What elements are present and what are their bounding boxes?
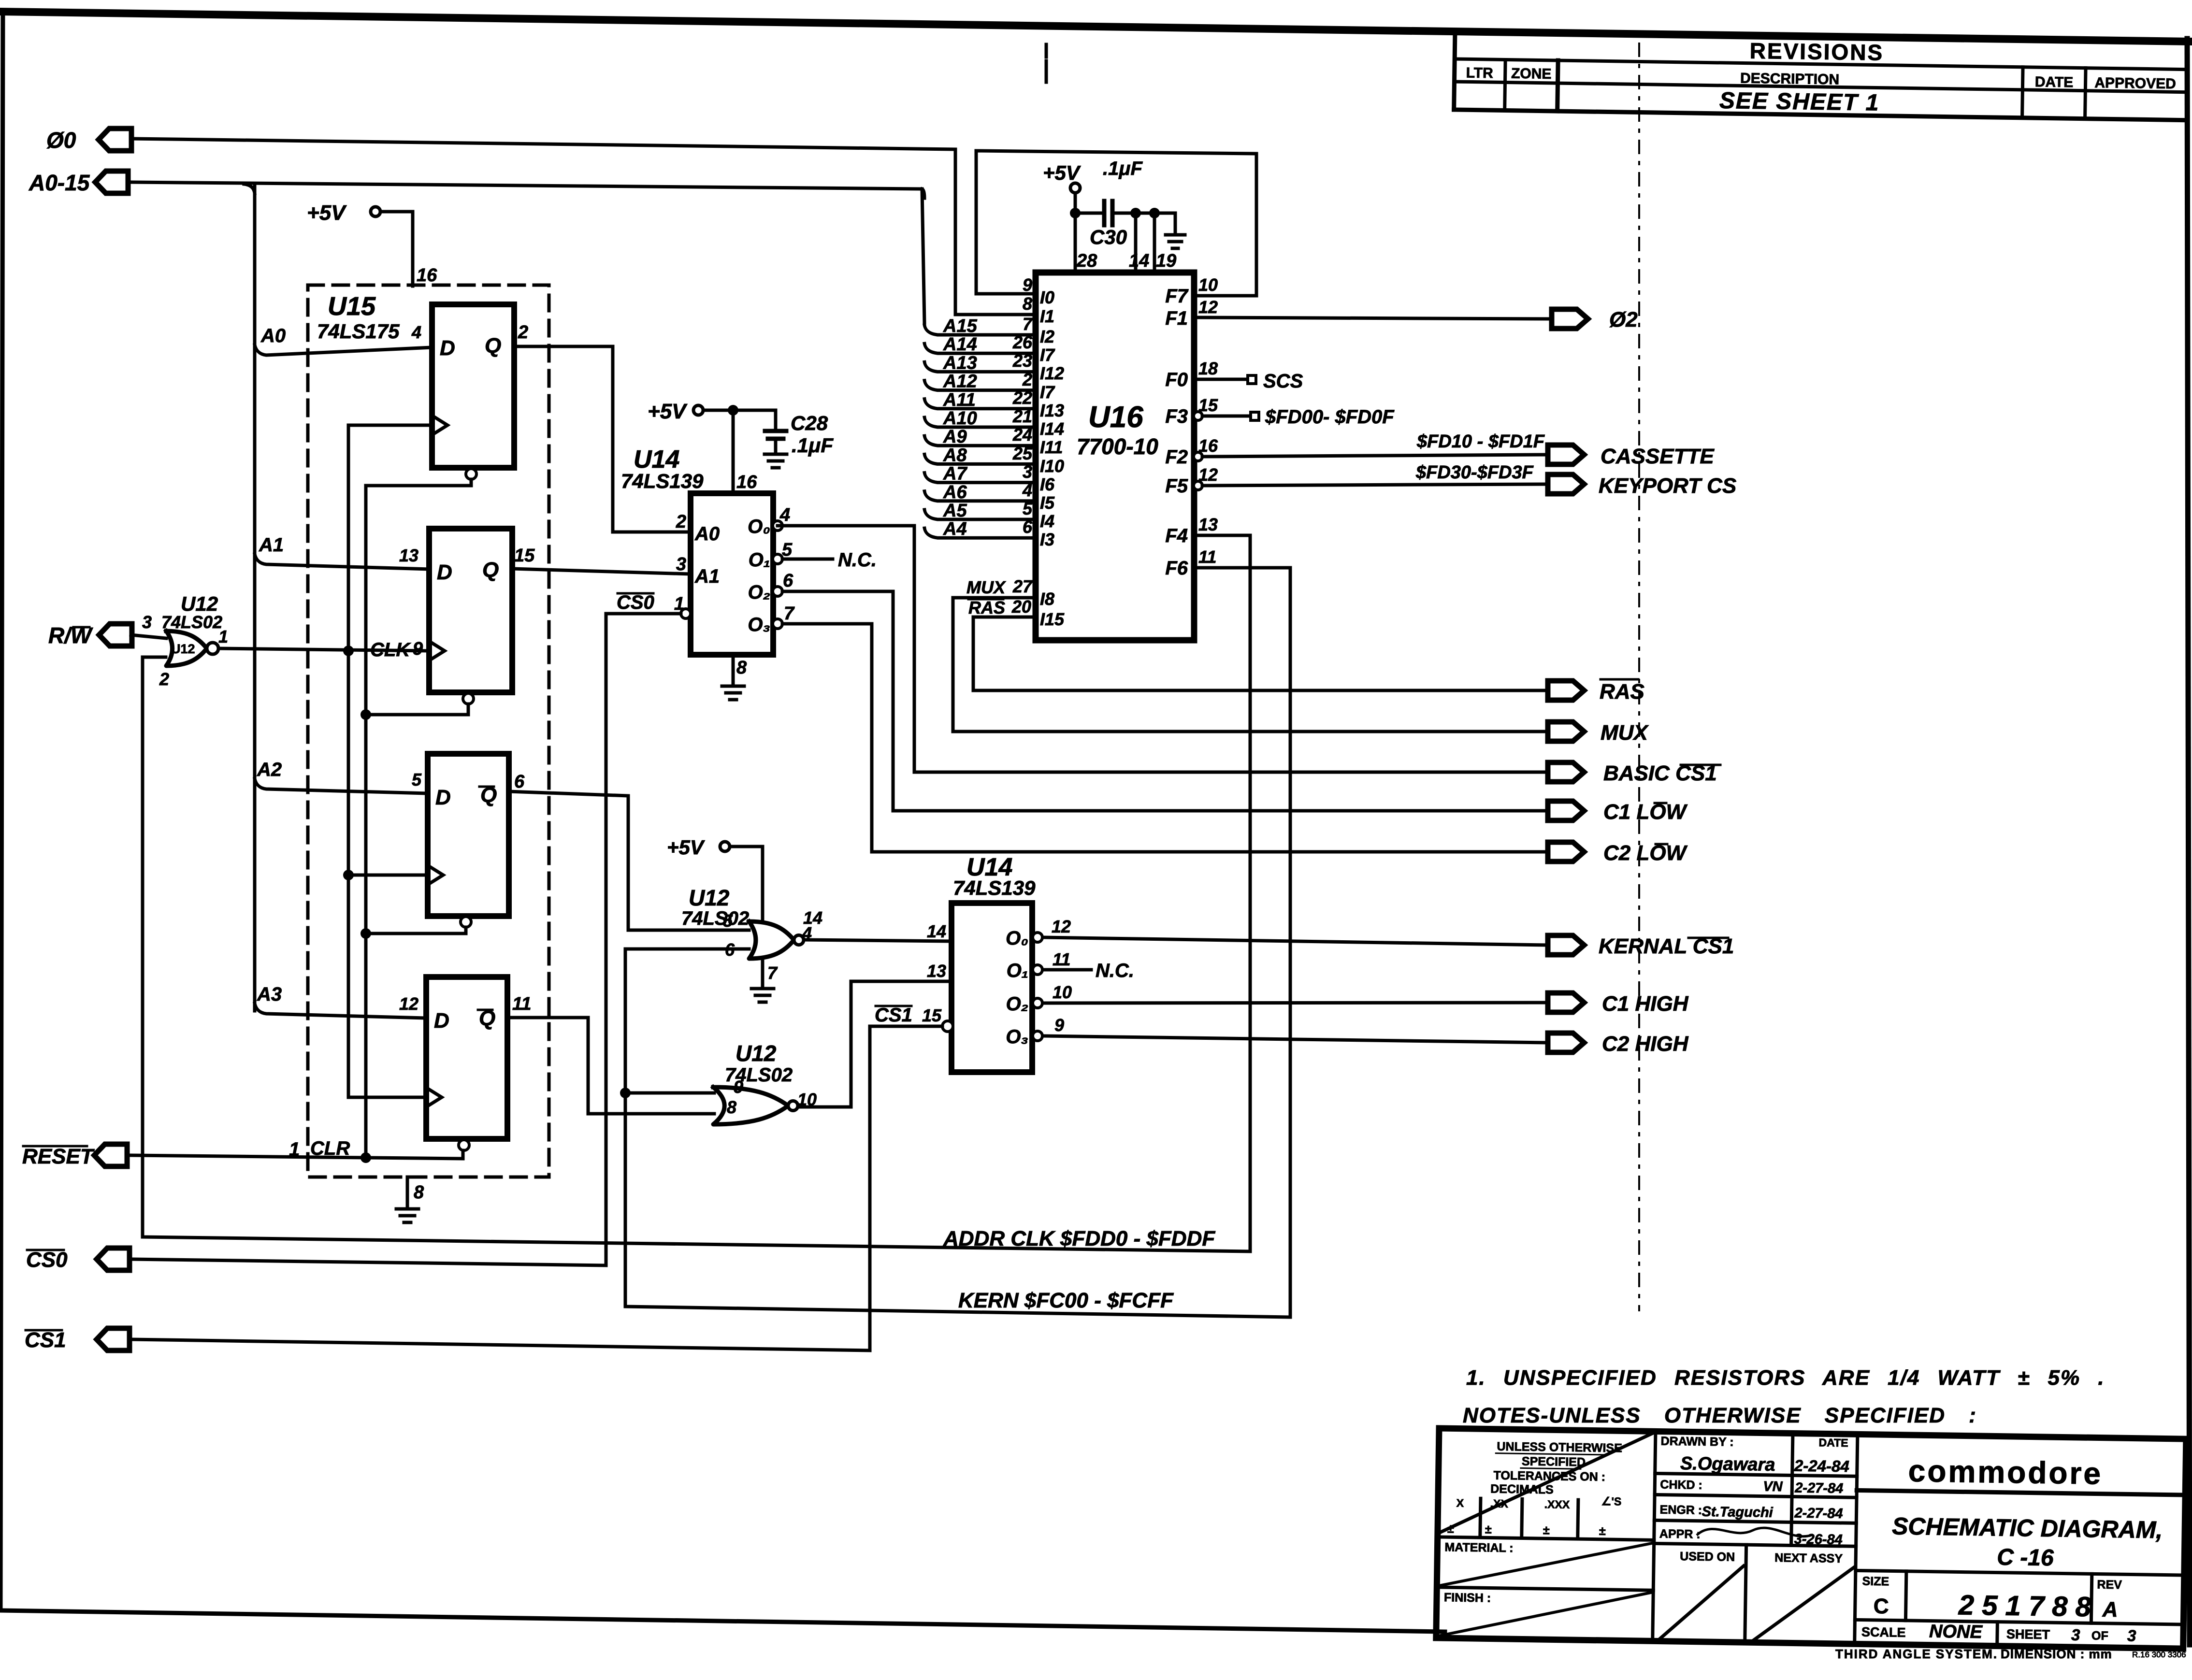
svg-text:APPR :: APPR : bbox=[1659, 1527, 1701, 1541]
wire U14a O2 to C1 LOW bbox=[782, 591, 1548, 811]
svg-text:CS1: CS1 bbox=[875, 1005, 912, 1026]
svg-text:14: 14 bbox=[1129, 251, 1149, 271]
wire F0 to SCS bbox=[1194, 378, 1247, 381]
svg-text:DATE: DATE bbox=[2035, 74, 2074, 90]
svg-text:SCALE: SCALE bbox=[1861, 1625, 1906, 1640]
svg-text:1: 1 bbox=[289, 1139, 300, 1160]
svg-text:7700-10: 7700-10 bbox=[1077, 434, 1158, 459]
svg-text:10: 10 bbox=[1198, 275, 1218, 295]
svg-text:74LS02: 74LS02 bbox=[161, 612, 222, 632]
svg-text:Q: Q bbox=[485, 334, 501, 358]
svg-text:REVISIONS: REVISIONS bbox=[1749, 38, 1884, 65]
svg-text:A12: A12 bbox=[943, 372, 977, 392]
svg-text:CS1: CS1 bbox=[25, 1328, 66, 1352]
svg-text:Ø0: Ø0 bbox=[46, 128, 76, 153]
svg-text:NEXT ASSY: NEXT ASSY bbox=[1774, 1551, 1843, 1565]
svg-text:F2: F2 bbox=[1165, 446, 1188, 468]
U15d reset bubble bbox=[459, 1140, 469, 1150]
svg-text:I15: I15 bbox=[1040, 609, 1065, 629]
svg-text:C2 HIGH: C2 HIGH bbox=[1602, 1032, 1689, 1056]
svg-text:±: ± bbox=[1599, 1524, 1606, 1538]
fold line (dash-dot vertical) bbox=[1638, 43, 1640, 1310]
svg-text:+5V: +5V bbox=[1043, 161, 1081, 184]
svg-text:2: 2 bbox=[676, 512, 686, 532]
input connector CS0 bbox=[97, 1248, 130, 1270]
svg-text:11: 11 bbox=[1053, 949, 1070, 969]
U14a output bubbles bbox=[773, 521, 782, 531]
svg-text:SCS: SCS bbox=[1263, 371, 1303, 392]
svg-text:A4: A4 bbox=[943, 519, 967, 539]
wire A0-15 bus to stack bbox=[131, 182, 924, 323]
svg-text:2-24-84: 2-24-84 bbox=[1794, 1457, 1849, 1476]
wire A0 tap to FF1 D bbox=[255, 345, 432, 355]
wire A2 tap to FF3 D bbox=[255, 779, 428, 793]
svg-text:DRAWN BY :: DRAWN BY : bbox=[1660, 1435, 1733, 1449]
svg-text:I11: I11 bbox=[1040, 437, 1063, 457]
svg-text:DIMENSION : mm: DIMENSION : mm bbox=[2001, 1647, 2112, 1661]
U16 lower input MUX pin 27 bbox=[953, 598, 1548, 732]
svg-text:MATERIAL :: MATERIAL : bbox=[1444, 1540, 1514, 1555]
decoder U14a 74LS139 bbox=[691, 493, 773, 655]
input connector R/W bbox=[99, 624, 132, 646]
svg-text:12: 12 bbox=[1198, 297, 1218, 317]
svg-text:A0: A0 bbox=[260, 325, 286, 346]
input connector RESET bbox=[94, 1144, 127, 1166]
svg-text:MUX: MUX bbox=[966, 577, 1006, 597]
svg-text:CLR: CLR bbox=[310, 1138, 350, 1159]
svg-text:11: 11 bbox=[1198, 547, 1216, 567]
U14b enable bubble pin 15 bbox=[942, 1021, 953, 1032]
decoder U14b 74LS139 bbox=[952, 903, 1032, 1072]
svg-text:ZONE: ZONE bbox=[1511, 66, 1552, 82]
U14b output bubbles bbox=[1033, 933, 1042, 942]
sheet border top bbox=[0, 12, 2192, 42]
svg-text:A7: A7 bbox=[943, 464, 967, 484]
svg-text:U12: U12 bbox=[735, 1041, 777, 1066]
svg-text:CS0: CS0 bbox=[617, 592, 654, 613]
center fold mark bbox=[1045, 44, 1048, 83]
IC U16 7700-10 bbox=[1036, 273, 1194, 640]
svg-text:5: 5 bbox=[782, 540, 793, 560]
svg-text:I10: I10 bbox=[1040, 456, 1064, 476]
NOR gate U12c bbox=[713, 1087, 788, 1124]
capacitor C28 .1uF bbox=[774, 410, 778, 431]
svg-text:ADDR CLK $FDD0 - $FDDF: ADDR CLK $FDD0 - $FDDF bbox=[943, 1227, 1215, 1250]
svg-text:C: C bbox=[1873, 1594, 1889, 1618]
svg-text:NOTES-UNLESS OTHERWISE S: NOTES-UNLESS OTHERWISE SPECIFIED : bbox=[1463, 1404, 1977, 1427]
U12b ground pin 7 bbox=[761, 959, 764, 989]
svg-text:.1μF: .1μF bbox=[1103, 158, 1143, 179]
U16 input pin labels bbox=[1012, 275, 1064, 549]
svg-text:11: 11 bbox=[512, 994, 531, 1014]
svg-text:27: 27 bbox=[1012, 576, 1033, 596]
wire F5 to KEYPORT CS bbox=[1202, 484, 1548, 486]
svg-text:C1 LOW: C1 LOW bbox=[1603, 800, 1688, 824]
svg-text:A1: A1 bbox=[259, 534, 284, 556]
svg-text:2: 2 bbox=[518, 322, 528, 343]
wire F1 to PHI2 output bbox=[1194, 317, 1552, 319]
svg-text:12: 12 bbox=[1052, 917, 1071, 936]
NOR gate U12a bbox=[166, 631, 207, 666]
svg-text:I12: I12 bbox=[1040, 363, 1064, 383]
wire F7 feedback loop to I0 bbox=[976, 151, 1256, 296]
wire reset distribution bbox=[364, 486, 368, 1158]
svg-text:I7: I7 bbox=[1040, 345, 1055, 365]
revisions table bbox=[1454, 31, 2186, 120]
svg-text:TOLERANCES ON :: TOLERANCES ON : bbox=[1493, 1469, 1605, 1484]
svg-text:6: 6 bbox=[514, 772, 525, 792]
svg-text:commodore: commodore bbox=[1908, 1453, 2103, 1491]
svg-text:A15: A15 bbox=[943, 316, 978, 336]
svg-text:FINISH :: FINISH : bbox=[1444, 1591, 1491, 1605]
svg-text:13: 13 bbox=[399, 546, 418, 565]
svg-text:I0: I0 bbox=[1040, 287, 1054, 307]
svg-text:14: 14 bbox=[803, 908, 822, 928]
wire RESET to CLR line bbox=[131, 1150, 463, 1159]
svg-text:4: 4 bbox=[411, 322, 421, 342]
wire U12c output to U14b pin 13 bbox=[798, 981, 952, 1107]
output connector KEYPORT CS bbox=[1548, 474, 1584, 494]
wire U12b output to U14b pin 14 bbox=[804, 940, 952, 941]
wire U14a O1 N.C. bbox=[782, 558, 833, 561]
flip-flop U15d bbox=[426, 977, 507, 1139]
output connector C2 LOW bbox=[1548, 842, 1584, 862]
svg-text:A8: A8 bbox=[943, 445, 967, 465]
svg-text:UNLESS OTHERWISE: UNLESS OTHERWISE bbox=[1497, 1440, 1622, 1455]
svg-text:ENGR :: ENGR : bbox=[1659, 1503, 1702, 1517]
NOR gate U12b bbox=[749, 921, 794, 959]
U15 ground pin 8 bbox=[406, 1177, 409, 1209]
svg-text:LTR: LTR bbox=[1466, 65, 1493, 81]
svg-text:12: 12 bbox=[399, 994, 418, 1014]
svg-text:+5V: +5V bbox=[667, 836, 705, 859]
svg-text:S.Ogawara: S.Ogawara bbox=[1680, 1453, 1775, 1475]
svg-text:Ø2: Ø2 bbox=[1609, 308, 1638, 331]
U15b reset bubble bbox=[463, 693, 474, 704]
svg-text:THIRD ANGLE SYSTEM.: THIRD ANGLE SYSTEM. bbox=[1835, 1647, 1998, 1661]
wire KERN branch to U12c pin 9 bbox=[620, 1088, 631, 1098]
svg-text:F1: F1 bbox=[1165, 308, 1188, 329]
wire F4 to ADDR CLK line to U12a pin 2 bbox=[143, 535, 1250, 1251]
wire R/W to U12a input 3 bbox=[131, 635, 166, 638]
svg-text:5: 5 bbox=[723, 911, 733, 931]
svg-text:U12: U12 bbox=[181, 592, 218, 615]
wire A3 tap to FF4 D bbox=[255, 1004, 426, 1018]
svg-text:SIZE: SIZE bbox=[1862, 1575, 1889, 1589]
svg-text:A11: A11 bbox=[943, 390, 976, 410]
svg-text:.XXX: .XXX bbox=[1544, 1498, 1570, 1511]
title block bbox=[1436, 1428, 2186, 1649]
svg-text:74LS139: 74LS139 bbox=[953, 876, 1036, 899]
svg-text:KERN $FC00 - $FCFF: KERN $FC00 - $FCFF bbox=[958, 1289, 1174, 1312]
svg-text:OF: OF bbox=[2091, 1629, 2108, 1642]
output connector PHI2 bbox=[1552, 309, 1588, 329]
U14a ground pin 8 bbox=[732, 655, 735, 686]
svg-text:∠'S: ∠'S bbox=[1601, 1495, 1622, 1508]
svg-text:I7: I7 bbox=[1040, 382, 1055, 402]
svg-text:8: 8 bbox=[414, 1182, 424, 1203]
U16 output pin labels bbox=[1165, 275, 1218, 579]
U14a +5V pin 16 bbox=[693, 405, 703, 415]
svg-text:O₁: O₁ bbox=[1007, 960, 1028, 981]
wire F2 to CASSETTE bbox=[1202, 455, 1548, 457]
svg-text:O₀: O₀ bbox=[748, 516, 770, 537]
svg-text:O₂: O₂ bbox=[1006, 993, 1028, 1015]
svg-text:CS0: CS0 bbox=[26, 1248, 68, 1272]
svg-text:F7: F7 bbox=[1165, 286, 1188, 307]
svg-text:15: 15 bbox=[922, 1005, 942, 1025]
svg-text:F5: F5 bbox=[1165, 475, 1188, 497]
svg-text:O₁: O₁ bbox=[749, 549, 770, 571]
wire PHI0 to U16 pin 8 bbox=[131, 139, 1036, 315]
wire U14b O2 to C1 HIGH bbox=[1043, 1003, 1548, 1003]
svg-text:14: 14 bbox=[927, 921, 946, 941]
svg-text:A0-15: A0-15 bbox=[29, 170, 90, 195]
U16 +5V and C30 bbox=[1070, 183, 1080, 193]
svg-text:I3: I3 bbox=[1040, 530, 1054, 549]
wire C30 to U16 pins 14 19 and ground bbox=[1112, 212, 1175, 215]
svg-text:A14: A14 bbox=[943, 334, 977, 355]
svg-text:2-27-84: 2-27-84 bbox=[1794, 1506, 1843, 1522]
svg-text:F0: F0 bbox=[1165, 369, 1188, 390]
svg-text:A0: A0 bbox=[694, 523, 720, 545]
svg-text:6: 6 bbox=[783, 571, 793, 591]
svg-text:D: D bbox=[434, 1009, 449, 1033]
svg-text:10: 10 bbox=[1053, 982, 1072, 1002]
svg-text:2: 2 bbox=[159, 669, 169, 689]
wire U15d Q to U12c input 8 bbox=[507, 1018, 714, 1114]
svg-text:3: 3 bbox=[2071, 1626, 2080, 1644]
svg-text:7: 7 bbox=[1023, 314, 1033, 334]
svg-text:MUX: MUX bbox=[1601, 721, 1649, 745]
sheet border left bbox=[0, 12, 3, 1610]
output connector C1 LOW bbox=[1548, 801, 1584, 820]
svg-text:±: ± bbox=[1543, 1523, 1550, 1537]
svg-text:F6: F6 bbox=[1165, 558, 1188, 579]
svg-text:O₂: O₂ bbox=[748, 582, 770, 603]
wire U15a Q to U14a A0 bbox=[514, 346, 691, 532]
svg-text:7: 7 bbox=[784, 603, 795, 624]
svg-text:RESET: RESET bbox=[22, 1145, 95, 1168]
svg-text:.XX: .XX bbox=[1490, 1497, 1509, 1510]
svg-text:8: 8 bbox=[736, 658, 747, 678]
svg-text:APPROVED: APPROVED bbox=[2094, 75, 2176, 92]
svg-text:13: 13 bbox=[927, 961, 946, 981]
svg-text:DATE: DATE bbox=[1818, 1436, 1848, 1449]
svg-text:28: 28 bbox=[1076, 251, 1097, 271]
A0-15 bus stack to U16 bbox=[924, 325, 1036, 538]
wire U14a O3 to C2 LOW bbox=[782, 624, 1548, 852]
output connector BASIC CS1 bbox=[1548, 762, 1584, 782]
U15c reset bubble bbox=[461, 917, 471, 927]
svg-text:1: 1 bbox=[218, 627, 228, 646]
svg-text:F4: F4 bbox=[1165, 525, 1188, 546]
svg-text:+5V: +5V bbox=[307, 201, 347, 225]
svg-text:15: 15 bbox=[514, 546, 535, 566]
svg-text:C2 LOW: C2 LOW bbox=[1603, 841, 1688, 865]
svg-text:8: 8 bbox=[1023, 294, 1032, 314]
svg-text:KEYPORT CS: KEYPORT CS bbox=[1599, 474, 1736, 498]
svg-text:2 5 1 7 8 8: 2 5 1 7 8 8 bbox=[1958, 1589, 2091, 1623]
svg-text:I2: I2 bbox=[1040, 327, 1054, 346]
svg-text:D: D bbox=[437, 560, 452, 584]
svg-text:O₃: O₃ bbox=[1006, 1026, 1028, 1048]
svg-text:N.C.: N.C. bbox=[838, 549, 877, 571]
svg-text:C -16: C -16 bbox=[1997, 1545, 2054, 1571]
svg-text:D: D bbox=[440, 336, 455, 360]
svg-text:F3: F3 bbox=[1165, 406, 1188, 427]
svg-text:9: 9 bbox=[1054, 1015, 1064, 1035]
svg-text:A13: A13 bbox=[943, 353, 977, 373]
svg-text:I1: I1 bbox=[1040, 306, 1054, 326]
svg-text:5: 5 bbox=[412, 770, 422, 790]
svg-text:X: X bbox=[1457, 1497, 1464, 1509]
wire F3 to FD00 pad bbox=[1202, 415, 1250, 418]
U16 output bubbles F3 F2 F5 bbox=[1194, 412, 1202, 420]
svg-text:$FD30-$FD3F: $FD30-$FD3F bbox=[1415, 462, 1534, 483]
svg-text:R.16 300 3306: R.16 300 3306 bbox=[2132, 1650, 2186, 1659]
input connector CS1 bbox=[97, 1328, 130, 1350]
svg-text:U16: U16 bbox=[1088, 401, 1143, 434]
tolerance box bbox=[1437, 1430, 1656, 1590]
svg-text:9: 9 bbox=[734, 1077, 743, 1097]
svg-text:19: 19 bbox=[1156, 251, 1176, 271]
svg-text:RAS: RAS bbox=[1600, 680, 1644, 704]
svg-text:+5V: +5V bbox=[648, 400, 688, 423]
svg-text:U15: U15 bbox=[328, 292, 376, 321]
svg-text:DECIMALS: DECIMALS bbox=[1490, 1482, 1554, 1497]
svg-text:3: 3 bbox=[142, 612, 152, 632]
U15a reset bubble bbox=[466, 469, 476, 479]
svg-text:SCHEMATIC DIAGRAM,: SCHEMATIC DIAGRAM, bbox=[1892, 1512, 2163, 1543]
svg-text:9: 9 bbox=[413, 639, 423, 659]
svg-text:C30: C30 bbox=[1090, 226, 1127, 248]
U14a enable bubble pin1 bbox=[681, 609, 691, 618]
svg-text:Q: Q bbox=[482, 558, 499, 582]
svg-text:74LS02: 74LS02 bbox=[681, 908, 749, 929]
svg-text:REV: REV bbox=[2097, 1578, 2122, 1592]
svg-text:16: 16 bbox=[736, 472, 757, 492]
svg-text:A6: A6 bbox=[943, 482, 967, 503]
output connector KERNAL CS1 bbox=[1548, 935, 1584, 955]
output connector C2 HIGH bbox=[1548, 1033, 1584, 1052]
output connector RAS bbox=[1548, 681, 1584, 700]
svg-text:St.Taguchi: St.Taguchi bbox=[1702, 1504, 1774, 1521]
svg-text:USED ON: USED ON bbox=[1680, 1550, 1735, 1564]
flip-flop U15c bbox=[428, 754, 509, 916]
svg-text:18: 18 bbox=[1198, 359, 1218, 378]
svg-text:A9: A9 bbox=[943, 427, 967, 447]
svg-text:O₀: O₀ bbox=[1006, 928, 1028, 949]
wire U14b O3 to C2 HIGH bbox=[1043, 1036, 1548, 1043]
svg-text:I14: I14 bbox=[1040, 419, 1064, 439]
sheet border bottom bbox=[0, 1610, 1445, 1632]
svg-text:9: 9 bbox=[1023, 275, 1032, 295]
svg-text:SHEET: SHEET bbox=[2006, 1627, 2050, 1642]
svg-text:I6: I6 bbox=[1040, 474, 1055, 494]
svg-text:20: 20 bbox=[1011, 597, 1031, 617]
svg-text:13: 13 bbox=[1198, 515, 1218, 534]
svg-text:±: ± bbox=[1447, 1522, 1454, 1536]
svg-text:O₃: O₃ bbox=[748, 614, 770, 635]
svg-text:D: D bbox=[435, 786, 451, 809]
svg-text:$FD10 - $FD1F: $FD10 - $FD1F bbox=[1416, 431, 1545, 452]
svg-text:I4: I4 bbox=[1040, 511, 1054, 531]
svg-text:.1μF: .1μF bbox=[792, 434, 834, 457]
svg-text:1. UNSPECIFIED RESISTORS: 1. UNSPECIFIED RESISTORS ARE 1/4 WATT ± … bbox=[1466, 1366, 2105, 1390]
svg-text:74LS175: 74LS175 bbox=[317, 320, 400, 343]
wire CLK distribution bbox=[347, 425, 350, 1097]
output connector CASSETTE bbox=[1548, 445, 1584, 464]
U15 74LS175 dashed outline bbox=[308, 285, 549, 1177]
svg-text:16: 16 bbox=[417, 265, 437, 286]
svg-text:A5: A5 bbox=[943, 501, 967, 521]
svg-text:A10: A10 bbox=[943, 408, 977, 429]
wire U15b Q to U14a A1 bbox=[512, 569, 691, 574]
svg-text:A1: A1 bbox=[694, 566, 720, 587]
svg-text:7: 7 bbox=[767, 963, 778, 983]
wire CS0 to U14a enable bbox=[131, 614, 681, 1265]
svg-text:C1 HIGH: C1 HIGH bbox=[1602, 992, 1689, 1016]
svg-text:CASSETTE: CASSETTE bbox=[1601, 445, 1715, 468]
wire U14a O0 to BASIC CS1 bbox=[778, 526, 1548, 772]
wire F6 to KERN line to U12b pin 6 bbox=[625, 568, 1290, 1317]
wire CS1 to U14b enable bbox=[131, 1026, 942, 1350]
svg-text:I13: I13 bbox=[1040, 401, 1064, 420]
svg-text:NONE: NONE bbox=[1929, 1622, 1983, 1643]
wire A0-15 branch to U15 bbox=[244, 184, 255, 193]
svg-text:74LS139: 74LS139 bbox=[621, 470, 704, 492]
svg-text:3: 3 bbox=[676, 554, 686, 574]
node A-bus vertical (A0-A3 taps) bbox=[253, 184, 257, 1011]
input connector PHI0 bbox=[99, 129, 131, 151]
flip-flop U15a bbox=[432, 304, 514, 468]
U15 +5V supply pin 16 bbox=[371, 207, 380, 216]
svg-text:C28: C28 bbox=[791, 412, 828, 434]
svg-text:A: A bbox=[2102, 1598, 2118, 1622]
svg-text:3: 3 bbox=[2127, 1626, 2136, 1644]
wire U14b O1 N.C. bbox=[1043, 968, 1091, 972]
svg-text:CHKD :: CHKD : bbox=[1660, 1478, 1702, 1492]
svg-text:N.C.: N.C. bbox=[1096, 960, 1134, 981]
wire U15c Q to U12b input 5 bbox=[509, 791, 749, 930]
output connector C1 HIGH bbox=[1548, 993, 1584, 1012]
wire U12a output to U15 CLK bbox=[218, 648, 429, 651]
wire U14b O0 to KERNAL CS1 bbox=[1043, 937, 1548, 945]
svg-text:VN: VN bbox=[1763, 1479, 1783, 1495]
wire +5V to U15 pin 16 bbox=[380, 212, 413, 286]
svg-text:I8: I8 bbox=[1040, 589, 1054, 609]
input connector A0-15 bbox=[95, 171, 128, 193]
svg-text:U12: U12 bbox=[171, 642, 195, 656]
sheet border right bbox=[2187, 39, 2190, 1645]
svg-text:A3: A3 bbox=[257, 984, 282, 1005]
svg-text:A2: A2 bbox=[257, 759, 282, 780]
U12b +5V pin 14 bbox=[720, 842, 730, 851]
svg-text:DESCRIPTION: DESCRIPTION bbox=[1740, 70, 1839, 87]
svg-text:3-26-84: 3-26-84 bbox=[1794, 1532, 1843, 1548]
flip-flop U15b bbox=[429, 529, 512, 692]
svg-text:SPECIFIED: SPECIFIED bbox=[1522, 1454, 1586, 1469]
svg-text:8: 8 bbox=[727, 1097, 736, 1117]
wire A1 tap to FF2 D bbox=[255, 554, 429, 569]
svg-text:2-27-84: 2-27-84 bbox=[1794, 1480, 1843, 1496]
wire +5V to U14a and C28 bbox=[703, 409, 776, 412]
svg-text:6: 6 bbox=[725, 940, 735, 960]
svg-text:$FD00- $FD0F: $FD00- $FD0F bbox=[1265, 406, 1395, 428]
signature box bbox=[1653, 1431, 1858, 1644]
svg-text:RAS: RAS bbox=[968, 598, 1005, 617]
